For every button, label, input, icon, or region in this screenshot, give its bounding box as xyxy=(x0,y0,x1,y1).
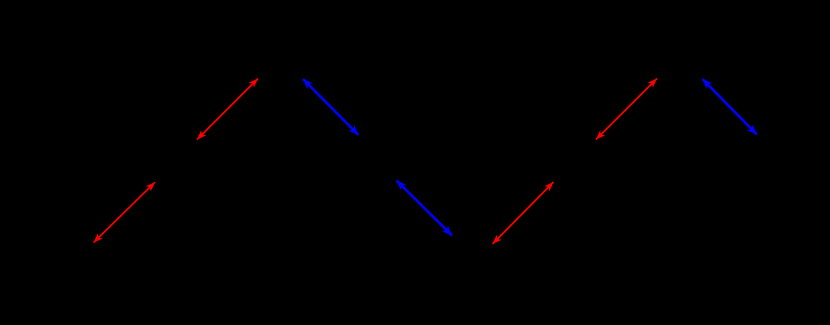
blue double arrow D (lower part of first descent) xyxy=(397,181,453,236)
red double arrow E (lower part of second ascent) xyxy=(493,182,554,244)
red double arrow A (lower part of first ascent) xyxy=(94,182,156,242)
red double arrow B (upper part of first ascent) xyxy=(197,79,258,140)
blue double arrow C (upper part of first descent) xyxy=(303,79,359,135)
blue double arrow G (upper part of second descent) xyxy=(703,79,757,135)
red double arrow F (upper part of second ascent) xyxy=(596,79,657,140)
